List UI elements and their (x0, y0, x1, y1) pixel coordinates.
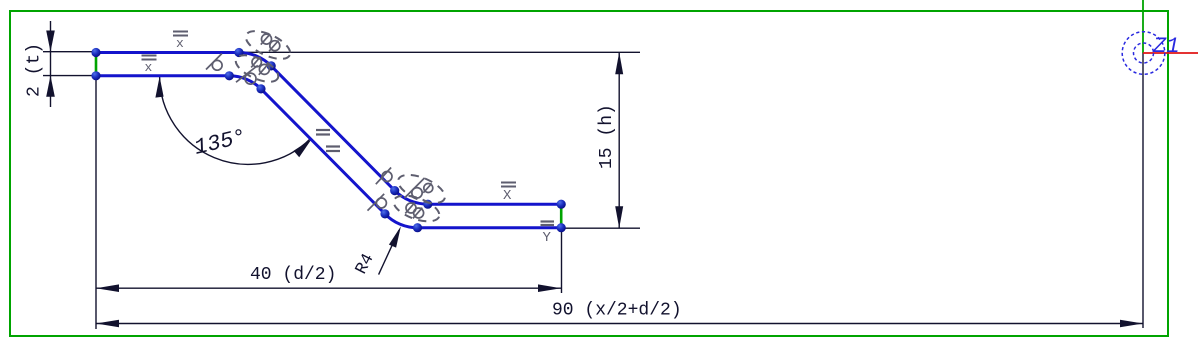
angle dimension arc 135 (160, 76, 311, 165)
arrow 90 left (96, 320, 119, 328)
parallel mark eq2 (326, 147, 340, 152)
cluster top-bend lower (232, 50, 282, 88)
origin marker circles (dashed blue) (1122, 32, 1165, 75)
svg-text:Z1: Z1 (1152, 34, 1179, 59)
tangent T6 (245, 73, 256, 84)
arrow angle right (pointing up-right 45) (294, 139, 312, 157)
right end cap (green) (560, 206, 563, 226)
cluster low-bend upper (394, 169, 449, 209)
arrow 15 bottom (615, 206, 623, 228)
constraint glyphs (gray) (206, 54, 392, 211)
tangent T8 (376, 198, 386, 208)
extension line x=561.5 vertical (561, 230, 563, 293)
symbol x-doublebar lower flange (501, 183, 516, 187)
svg-text:90 (x/2+d/2): 90 (x/2+d/2) (552, 301, 682, 321)
svg-text:Y: Y (543, 230, 552, 246)
cluster top-bend upper (242, 25, 294, 64)
arrow 90 right (1120, 320, 1143, 328)
tangent T1 (212, 60, 222, 70)
dimension line 40 (d/2) (96, 287, 561, 289)
svg-text:40 (d/2): 40 (d/2) (250, 265, 336, 285)
dimension line 90 (x/2+d/2) (96, 323, 1143, 325)
origin marker: green Y axis (1142, 0, 1144, 53)
svg-text:x: x (145, 60, 153, 75)
cluster low-bend lower (390, 190, 442, 226)
extension line 15(h) top (243, 51, 640, 53)
svg-text:15 (h): 15 (h) (597, 104, 617, 169)
extension line left bottom (43, 75, 96, 77)
svg-text:x: x (176, 36, 184, 51)
arrow 15 top (615, 52, 623, 74)
tangent T7 (382, 172, 392, 182)
origin marker: red X axis (1143, 52, 1198, 54)
sketch points (blue dots) (91, 48, 565, 232)
extension line left top (43, 51, 96, 53)
parallel mark eq1 (316, 130, 330, 135)
arrow 40 left (96, 284, 119, 292)
extension line 15(h) bottom (561, 227, 640, 229)
arrow 40 right (538, 284, 561, 292)
symbol x-doublebar top2 (142, 56, 157, 60)
extension line x=1143 vertical (1142, 53, 1144, 328)
dimension line 2(t) vertical (50, 21, 52, 107)
arrow 2(t) bottom (46, 76, 55, 97)
left end cap (green) (95, 54, 98, 75)
dimension line 15(h) vertical (618, 52, 620, 228)
profile inner surface (bottom) (96, 76, 561, 228)
symbol eq+Y right end (541, 222, 555, 226)
svg-text:2 (t): 2 (t) (25, 43, 45, 97)
arrow angle left (pointing up) (155, 77, 163, 98)
symbol x-doublebar top1 (173, 32, 188, 36)
arrow 2(t) top (46, 31, 55, 52)
svg-text:X: X (503, 188, 512, 204)
extension line x=96 vertical (95, 80, 97, 329)
leader R4 (379, 230, 399, 274)
profile outer surface (top) (96, 53, 561, 205)
